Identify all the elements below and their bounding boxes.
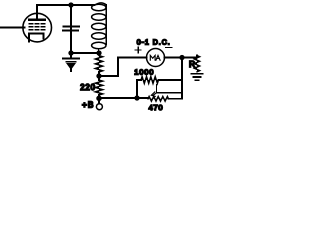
svg-text:220: 220 (80, 83, 95, 92)
svg-text:R: R (189, 59, 195, 69)
svg-text:+B: +B (82, 99, 94, 109)
svg-text:470: 470 (149, 103, 164, 112)
svg-text:0-1 D.C.: 0-1 D.C. (137, 39, 171, 46)
svg-text:1000: 1000 (134, 68, 154, 77)
